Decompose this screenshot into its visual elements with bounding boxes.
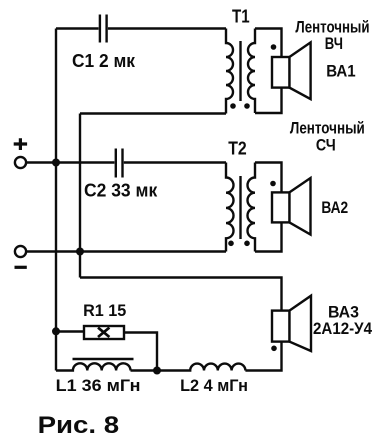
svg-text:T2: T2 bbox=[228, 139, 247, 159]
terminal + (plus input) bbox=[14, 138, 27, 168]
phase dot BA2 bbox=[270, 181, 276, 187]
transformer T2 secondary winding bbox=[248, 163, 256, 252]
wire BA3 to bottom rail bbox=[245, 342, 281, 371]
phase dot T2 secondary bbox=[244, 241, 250, 247]
svg-text:Ленточный: Ленточный bbox=[290, 120, 365, 138]
junction dot plus rail / line A bbox=[52, 159, 60, 167]
capacitor C2 bbox=[116, 149, 123, 178]
phase dot T2 primary bbox=[228, 241, 234, 247]
transformer T1 secondary winding bbox=[248, 29, 255, 114]
svg-text:Ленточный: Ленточный bbox=[295, 19, 369, 37]
svg-text:C1 2 мк: C1 2 мк bbox=[72, 51, 136, 71]
svg-text:ВА2: ВА2 bbox=[321, 199, 348, 217]
wire vertical B from T1 primary return down to lower rail bbox=[79, 114, 81, 278]
speaker BA3 bbox=[272, 296, 311, 351]
junction dot minus rail / line B bbox=[76, 248, 84, 256]
svg-text:ВА1: ВА1 bbox=[326, 62, 355, 80]
wire vertical A from top rail to bottom bbox=[55, 29, 57, 371]
phase dot T1 primary bbox=[230, 103, 236, 109]
svg-text:L2 4 мГн: L2 4 мГн bbox=[180, 376, 248, 395]
wire top rail right of C1 bbox=[108, 27, 226, 29]
transformer T2 primary winding bbox=[226, 163, 234, 252]
svg-text:R1 15: R1 15 bbox=[83, 301, 126, 320]
phase dot BA3 bbox=[271, 346, 277, 352]
resistor R1 branch wires bbox=[56, 332, 157, 371]
capacitor C1 bbox=[100, 15, 107, 43]
terminal - (minus input) bbox=[15, 246, 27, 267]
wire top rail left of C1 bbox=[56, 27, 99, 29]
transformer T2 core bbox=[239, 176, 241, 239]
inductor L2 4 mH bbox=[157, 364, 245, 371]
transformer T1 core bbox=[239, 41, 241, 101]
svg-text:ВЧ: ВЧ bbox=[325, 35, 343, 53]
wire between L1 and L2 with junction bbox=[131, 369, 158, 371]
svg-text:L1 36 мГн: L1 36 мГн bbox=[56, 376, 141, 395]
junction dot R1 branch left bbox=[52, 327, 60, 335]
wire BA1 loop bbox=[255, 29, 282, 114]
svg-text:C2 33 мк: C2 33 мк bbox=[84, 181, 158, 201]
wire plus rail left of C2 bbox=[26, 161, 115, 163]
wire T1 primary bottom bbox=[80, 112, 226, 114]
inductor L1 36 mH bbox=[56, 363, 131, 370]
svg-text:T1: T1 bbox=[232, 7, 250, 27]
wire plus rail right of C2 bbox=[124, 161, 226, 163]
wire BA2 loop bbox=[255, 163, 282, 252]
transformer T1 primary winding bbox=[226, 29, 233, 114]
phase dot T1 secondary bbox=[244, 103, 250, 109]
inductor L1 core bar bbox=[73, 358, 134, 360]
svg-text:Рис. 8: Рис. 8 bbox=[38, 412, 120, 439]
wire lower mid rail to BA3 bbox=[80, 278, 282, 312]
speaker BA2 bbox=[272, 178, 311, 235]
junction dot L1/L2/R1 node bbox=[153, 367, 161, 375]
speaker BA1 bbox=[272, 42, 311, 99]
svg-text:СЧ: СЧ bbox=[316, 137, 336, 155]
svg-text:2А12-У4: 2А12-У4 bbox=[313, 319, 372, 338]
wire minus rail bbox=[26, 250, 226, 252]
phase dot BA1 bbox=[271, 44, 277, 50]
resistor R1 bbox=[84, 326, 124, 339]
